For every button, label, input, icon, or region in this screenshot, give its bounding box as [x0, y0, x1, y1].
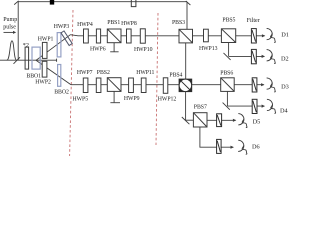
svg-text:HWP3: HWP3: [54, 24, 70, 30]
svg-text:PBS1: PBS1: [107, 20, 120, 26]
svg-text:PBS2: PBS2: [97, 70, 110, 76]
svg-text:D6: D6: [252, 144, 260, 151]
svg-text:HWP4: HWP4: [77, 22, 93, 28]
svg-text:PBS3: PBS3: [172, 20, 185, 26]
svg-text:BBO2: BBO2: [54, 89, 69, 95]
svg-text:HWP9: HWP9: [124, 96, 140, 102]
svg-text:D1: D1: [281, 31, 289, 38]
svg-text:HWP13: HWP13: [199, 46, 218, 52]
svg-text:HWP5: HWP5: [73, 96, 89, 102]
svg-text:Filter: Filter: [247, 18, 260, 24]
svg-text:D4: D4: [280, 107, 289, 114]
svg-text:HWP7: HWP7: [77, 70, 93, 76]
svg-text:PBS4: PBS4: [169, 73, 182, 79]
svg-text:PBS7: PBS7: [194, 105, 207, 111]
svg-text:Pump: Pump: [3, 17, 17, 23]
svg-text:PBS6: PBS6: [220, 70, 233, 76]
svg-text:HWP11: HWP11: [136, 70, 154, 76]
svg-text:pulse: pulse: [3, 25, 16, 31]
svg-text:D5: D5: [253, 118, 261, 125]
svg-text:HWP2: HWP2: [35, 79, 51, 85]
svg-text:PBS5: PBS5: [222, 18, 235, 24]
svg-text:*2: *2: [23, 42, 29, 49]
svg-text:HWP6: HWP6: [90, 47, 106, 53]
svg-text:D2: D2: [281, 55, 289, 62]
svg-text:HWP1: HWP1: [38, 37, 54, 43]
svg-text:HWP8: HWP8: [121, 21, 137, 27]
svg-text:D3: D3: [281, 83, 289, 90]
svg-text:HWP10: HWP10: [134, 47, 153, 53]
svg-text:HWP12: HWP12: [158, 96, 177, 102]
